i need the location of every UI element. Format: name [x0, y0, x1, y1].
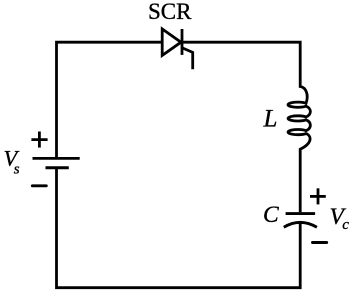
svg-text:c: c [342, 217, 349, 233]
svg-text:C: C [263, 202, 279, 228]
svg-text:SCR: SCR [148, 0, 192, 24]
svg-text:L: L [263, 106, 278, 133]
svg-text:s: s [14, 162, 20, 178]
